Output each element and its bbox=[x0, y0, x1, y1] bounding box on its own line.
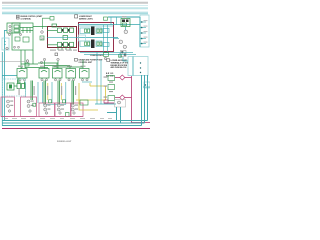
svg-text:RUNNING-LIGHT: RUNNING-LIGHT bbox=[57, 141, 72, 143]
svg-text:CONTROL UNIT: CONTROL UNIT bbox=[79, 62, 93, 64]
svg-text:(WIRING LIGHT): (WIRING LIGHT) bbox=[79, 18, 93, 20]
svg-text:& CHARGE): & CHARGE) bbox=[21, 18, 32, 21]
svg-text:AND FUSE BLOCK: AND FUSE BLOCK bbox=[111, 66, 128, 69]
